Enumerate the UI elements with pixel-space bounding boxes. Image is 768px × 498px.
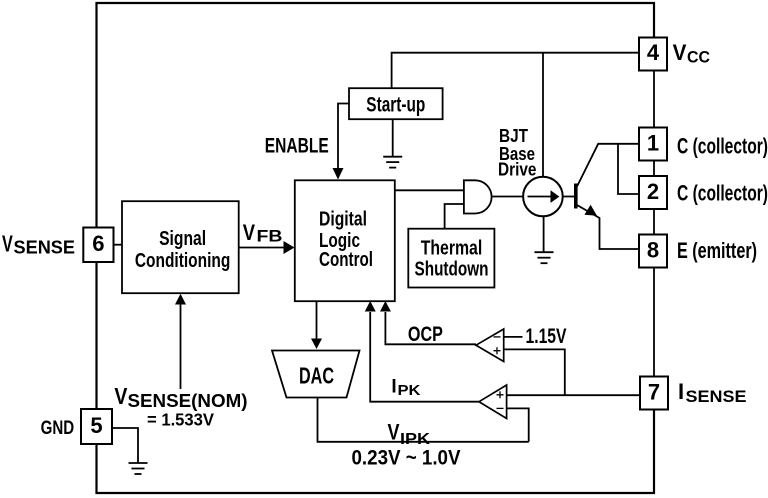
label VIPK <box>388 420 431 449</box>
wire OCP output to digital logic control <box>385 312 476 344</box>
svg-text:Signal: Signal <box>159 228 206 250</box>
wire IPK output to digital logic control <box>370 312 479 402</box>
wire VCC rail from pin4 to start-up <box>392 53 639 88</box>
wire IPK minus input to VIPK line <box>507 408 529 441</box>
label VSENSE(NOM) = 1.533V <box>114 383 247 430</box>
svg-text:CC: CC <box>687 47 710 66</box>
pin 4 box <box>639 38 667 71</box>
svg-text:1: 1 <box>647 130 659 155</box>
pin 8 box <box>639 235 667 268</box>
svg-text:8: 8 <box>647 237 659 262</box>
arrowhead ENABLE <box>333 168 344 180</box>
svg-text:1.15V: 1.15V <box>526 325 567 348</box>
svg-text:C (collector): C (collector) <box>677 180 768 205</box>
wire pin8 to pin7 <box>653 266 655 377</box>
label ISENSE <box>678 379 747 406</box>
block Digital Logic Control U-DLC <box>295 180 395 301</box>
svg-text:BJT: BJT <box>499 126 528 146</box>
wire VFB signal to digital <box>239 247 284 249</box>
arrowhead into DAC <box>311 339 322 350</box>
arrowhead VFB <box>284 241 295 254</box>
svg-text:IPK: IPK <box>400 431 431 448</box>
svg-text:7: 7 <box>648 379 660 404</box>
wire collector to pin2 <box>618 144 639 194</box>
svg-text:ENABLE: ENABLE <box>265 134 329 157</box>
label BJT Base Drive <box>498 126 537 180</box>
svg-text:4: 4 <box>647 40 660 65</box>
wire pin1 to pin2 <box>653 161 655 177</box>
emitter arrowhead <box>584 205 597 216</box>
wire thermal shutdown to AND gate <box>445 204 464 229</box>
svg-text:Start-up: Start-up <box>366 93 425 116</box>
svg-text:I: I <box>391 377 396 398</box>
svg-text:V: V <box>673 40 687 65</box>
svg-text:V: V <box>388 420 400 445</box>
svg-text:GND: GND <box>41 418 75 439</box>
pin 6 box <box>83 228 113 263</box>
svg-text:C (collector): C (collector) <box>677 133 768 158</box>
svg-text:V: V <box>243 220 256 245</box>
wire pin4 to pin1 (right rail) <box>653 71 655 128</box>
wire digital to DAC <box>316 301 318 339</box>
label VSENSE <box>2 231 75 258</box>
current source (BJT base drive) <box>523 177 563 217</box>
svg-text:Control: Control <box>319 249 373 271</box>
wire pin7 to IPK plus input <box>507 394 640 396</box>
ground (below start-up) <box>383 157 402 168</box>
block Signal Conditioning <box>122 201 239 293</box>
svg-text:OCP: OCP <box>408 323 443 346</box>
svg-text:SENSE: SENSE <box>14 238 76 258</box>
pin 7 box <box>640 377 668 410</box>
svg-text:5: 5 <box>90 413 102 438</box>
svg-text:Conditioning: Conditioning <box>135 250 231 272</box>
ground (pin5) <box>129 463 148 474</box>
pin 5 box <box>81 409 112 444</box>
wire pin5 to ground <box>112 428 138 463</box>
pin 1 box <box>639 128 667 161</box>
svg-text:6: 6 <box>92 231 104 256</box>
transistor Q1 base wire <box>563 196 574 198</box>
svg-text:SENSE(NOM): SENSE(NOM) <box>128 391 248 411</box>
IC outer border <box>97 3 655 493</box>
svg-text:V: V <box>2 231 13 257</box>
svg-text:FB: FB <box>257 227 283 246</box>
svg-text:0.23V ~ 1.0V: 0.23V ~ 1.0V <box>352 447 461 470</box>
svg-text:= 1.533V: = 1.533V <box>147 410 214 430</box>
arrowhead OCP into DLC <box>380 301 391 312</box>
AND gate U-AND <box>464 180 492 213</box>
pin 2 box <box>639 176 667 209</box>
arrowhead IPK into DLC <box>365 301 376 312</box>
wire 1.15V reference <box>504 336 523 338</box>
label VFB <box>243 220 283 245</box>
svg-text:DAC: DAC <box>299 363 334 389</box>
DAC block (trapezoid) <box>272 351 360 398</box>
wire digital to AND gate <box>395 189 464 191</box>
svg-text:Digital: Digital <box>319 208 367 230</box>
block Start-up <box>349 88 443 119</box>
arrowhead VSENSE(NOM) <box>175 294 186 305</box>
collector lead <box>577 144 639 187</box>
wire pin6 to signal conditioning <box>114 244 123 246</box>
svg-text:V: V <box>114 383 128 409</box>
wire AND gate to current source <box>492 196 524 198</box>
wire start-up to ground <box>392 119 394 156</box>
svg-text:Thermal: Thermal <box>421 238 483 260</box>
svg-text:E (emitter): E (emitter) <box>677 238 757 263</box>
wire ENABLE from start-up to digital logic control <box>338 104 349 169</box>
transistor Q1 <box>574 144 639 249</box>
wire VSENSE(NOM) arrow into signal conditioning <box>180 304 182 389</box>
wire current source to ground <box>543 216 545 252</box>
label IPK <box>391 377 420 400</box>
wire pin2 to pin8 <box>653 209 655 235</box>
svg-text:PK: PK <box>398 382 421 399</box>
svg-text:Shutdown: Shutdown <box>415 259 489 281</box>
block Thermal Shutdown <box>408 229 494 288</box>
svg-text:SENSE: SENSE <box>686 387 747 406</box>
svg-text:I: I <box>678 379 684 404</box>
svg-text:Drive: Drive <box>498 160 537 180</box>
svg-text:2: 2 <box>647 179 659 204</box>
wire VCC rail to current source <box>542 53 544 177</box>
comparator OCP <box>476 329 504 362</box>
ground (below current source) <box>535 252 554 263</box>
label VCC <box>673 40 710 66</box>
emitter lead <box>577 205 639 249</box>
wire VIPK from DAC to IPK comparator <box>318 398 529 442</box>
wire OCP plus input to ISENSE line <box>504 349 565 395</box>
comparator IPK <box>479 385 507 419</box>
